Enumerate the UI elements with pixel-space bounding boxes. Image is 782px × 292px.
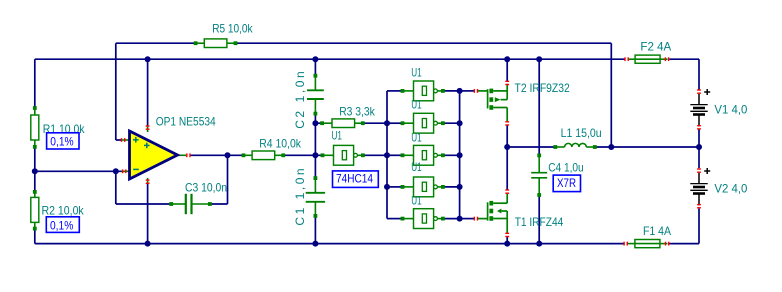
wire bbox=[116, 139, 122, 141]
T1 pin marks bbox=[474, 189, 509, 237]
svg-text:U1: U1 bbox=[332, 129, 343, 143]
label T2 bbox=[515, 81, 571, 95]
svg-text:V1 4,0: V1 4,0 bbox=[714, 102, 747, 116]
V2 plus sign bbox=[704, 168, 710, 174]
resistor R5 bbox=[194, 39, 238, 48]
wire bbox=[460, 90, 475, 92]
wire bbox=[115, 43, 117, 140]
wire bbox=[610, 43, 612, 147]
wire bbox=[387, 90, 403, 92]
svg-text:R5 10,0k: R5 10,0k bbox=[212, 21, 253, 35]
svg-text:U1: U1 bbox=[411, 66, 422, 80]
label U1 gate 6 bbox=[411, 193, 422, 207]
junction bbox=[312, 241, 318, 247]
svg-text:R3 3,3k: R3 3,3k bbox=[339, 104, 375, 118]
label C3 bbox=[185, 181, 227, 195]
transistor T2 bbox=[477, 84, 507, 123]
wire bbox=[443, 218, 460, 220]
label V1 bbox=[714, 102, 747, 116]
wire bbox=[443, 186, 460, 188]
wire bbox=[669, 243, 699, 245]
junction bbox=[312, 56, 318, 62]
wire bbox=[35, 243, 625, 245]
label R1 tolerance bbox=[47, 133, 79, 149]
label V2 bbox=[714, 182, 747, 196]
svg-text:R4 10,0k: R4 10,0k bbox=[259, 136, 302, 150]
capacitor C1 bbox=[306, 176, 325, 218]
wire bbox=[443, 122, 460, 124]
junction bbox=[145, 56, 151, 62]
junction bbox=[32, 168, 38, 174]
svg-text:OP1 NE5534: OP1 NE5534 bbox=[156, 115, 216, 129]
inverter U1 gate 5 bbox=[401, 177, 445, 197]
wire bbox=[363, 154, 387, 156]
fuse F1 bbox=[627, 240, 668, 248]
wire bbox=[315, 122, 322, 124]
junction bbox=[504, 241, 510, 247]
svg-text:T1 IRFZ44: T1 IRFZ44 bbox=[515, 215, 564, 229]
wire bbox=[506, 59, 508, 81]
wire bbox=[387, 186, 403, 188]
junction bbox=[384, 152, 390, 158]
wire bbox=[698, 209, 700, 244]
junction bbox=[312, 152, 318, 158]
wire bbox=[506, 147, 508, 190]
junction bbox=[312, 120, 318, 126]
wire bbox=[147, 59, 149, 126]
label R2 bbox=[42, 204, 85, 218]
junction bbox=[536, 241, 542, 247]
wire bbox=[35, 170, 122, 172]
wire bbox=[363, 122, 387, 124]
svg-text:F2 4A: F2 4A bbox=[640, 40, 671, 54]
svg-text:U1: U1 bbox=[411, 98, 422, 112]
svg-text:T2 IRF9Z32: T2 IRF9Z32 bbox=[515, 81, 571, 95]
wire bbox=[283, 154, 322, 156]
wire bbox=[387, 122, 403, 124]
label U1 gate 4 bbox=[411, 130, 422, 144]
wire bbox=[314, 59, 316, 75]
wire bbox=[314, 114, 316, 179]
resistor R2 bbox=[31, 190, 39, 231]
label R5 bbox=[212, 21, 253, 35]
label OP1 bbox=[156, 115, 216, 129]
inductor L1 bbox=[553, 143, 596, 149]
wire bbox=[227, 155, 229, 204]
svg-text:V2 4,0: V2 4,0 bbox=[714, 182, 747, 196]
junction bbox=[608, 144, 614, 150]
inverter U1 driver bbox=[321, 145, 365, 165]
T2 pin marks bbox=[474, 81, 509, 126]
F1 pin marks bbox=[623, 242, 669, 246]
svg-text:0,1%: 0,1% bbox=[50, 219, 74, 233]
label U1 gate 5 bbox=[411, 160, 422, 174]
wire bbox=[459, 91, 461, 219]
F2 pin marks bbox=[624, 57, 669, 61]
junction bbox=[145, 241, 151, 247]
label R1 bbox=[43, 122, 86, 136]
wire bbox=[210, 203, 228, 205]
label F2 bbox=[640, 40, 671, 54]
junction bbox=[457, 152, 463, 158]
svg-text:C3 10,0n: C3 10,0n bbox=[185, 181, 227, 195]
label U1 driver bbox=[332, 129, 343, 143]
V2 pin marks bbox=[697, 168, 701, 208]
wire bbox=[506, 125, 508, 147]
fuse F2 bbox=[628, 55, 668, 63]
wire bbox=[669, 58, 699, 60]
label C4 bbox=[548, 160, 584, 174]
resistor R4 bbox=[242, 151, 285, 160]
wire bbox=[116, 203, 171, 205]
label X7R bbox=[553, 175, 580, 192]
resistor R1 bbox=[31, 106, 39, 149]
wire bbox=[314, 216, 316, 244]
junction bbox=[504, 144, 510, 150]
svg-text:0,1%: 0,1% bbox=[50, 135, 74, 149]
inverter U1 gate 4 bbox=[401, 145, 445, 165]
junction bbox=[504, 56, 510, 62]
wire bbox=[443, 154, 460, 156]
wire bbox=[34, 147, 36, 192]
wire bbox=[595, 146, 699, 148]
V1 pin marks bbox=[697, 89, 701, 129]
svg-text:R2 10,0k: R2 10,0k bbox=[42, 204, 85, 218]
svg-text:X7R: X7R bbox=[557, 176, 576, 190]
wire bbox=[34, 229, 36, 244]
inverter U1 gate 3 bbox=[401, 113, 445, 133]
wire bbox=[507, 146, 555, 148]
wire bbox=[538, 196, 540, 244]
junction bbox=[457, 184, 463, 190]
label C1 bbox=[293, 168, 307, 225]
wire bbox=[698, 129, 700, 168]
transistor T1 bbox=[477, 193, 507, 233]
wire bbox=[538, 59, 540, 154]
wire bbox=[190, 154, 243, 156]
wire bbox=[387, 154, 403, 156]
capacitor C3 bbox=[169, 194, 212, 214]
label U1 gate 3 bbox=[411, 98, 422, 112]
wire bbox=[506, 237, 508, 244]
battery V1 bbox=[690, 94, 707, 127]
svg-text:F1 4A: F1 4A bbox=[643, 224, 671, 238]
label R2 tolerance bbox=[46, 217, 79, 233]
wire bbox=[34, 59, 36, 108]
wire bbox=[115, 171, 117, 204]
svg-text:L1 15,0u: L1 15,0u bbox=[561, 126, 602, 140]
junction bbox=[384, 120, 390, 126]
op-amp OP1 bbox=[122, 126, 187, 184]
svg-text:U1: U1 bbox=[411, 160, 422, 174]
junction bbox=[457, 120, 463, 126]
label C2 bbox=[293, 71, 307, 129]
junction bbox=[113, 168, 119, 174]
wire bbox=[35, 58, 625, 60]
junction bbox=[225, 152, 231, 158]
label T1 bbox=[515, 215, 564, 229]
svg-text:U1: U1 bbox=[411, 130, 422, 144]
junction bbox=[696, 144, 702, 150]
junction bbox=[457, 88, 463, 94]
svg-text:U1: U1 bbox=[411, 193, 422, 207]
svg-text:C4 1,0u: C4 1,0u bbox=[548, 160, 584, 174]
inverter U1 gate 2 bbox=[401, 81, 445, 101]
op-amp pin marks bbox=[121, 125, 191, 184]
wire bbox=[147, 183, 149, 243]
label L1 bbox=[561, 126, 602, 140]
junction bbox=[384, 184, 390, 190]
svg-text:74HC14: 74HC14 bbox=[336, 172, 373, 186]
wire bbox=[387, 218, 403, 220]
wire bbox=[386, 91, 388, 219]
wire bbox=[236, 42, 612, 44]
label R3 bbox=[339, 104, 375, 118]
battery V2 bbox=[690, 173, 707, 206]
label F1 bbox=[643, 224, 671, 238]
wire bbox=[460, 218, 475, 220]
label R4 bbox=[259, 136, 302, 150]
V1 plus sign bbox=[704, 89, 710, 95]
wire bbox=[698, 59, 700, 89]
capacitor C2 bbox=[307, 74, 324, 116]
label U1 gate 2 bbox=[411, 66, 422, 80]
capacitor C4 bbox=[531, 154, 547, 197]
junction bbox=[457, 216, 463, 222]
junction bbox=[536, 56, 542, 62]
wire bbox=[116, 42, 196, 44]
resistor R3 bbox=[320, 119, 364, 128]
wire bbox=[443, 90, 460, 92]
label 74HC14 bbox=[333, 171, 379, 188]
inverter U1 gate 6 bbox=[401, 209, 445, 229]
